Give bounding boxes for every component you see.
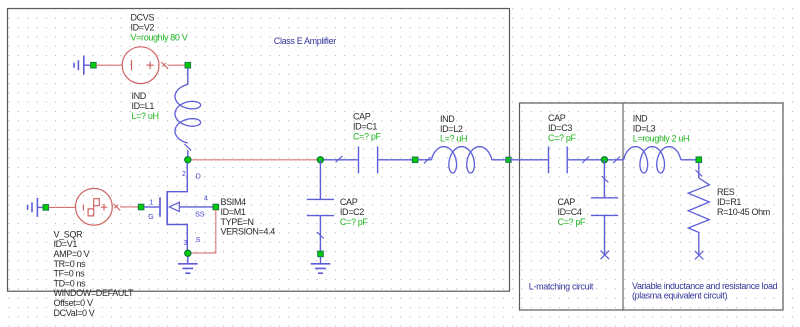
wire L1 to drain node — [187, 150, 189, 160]
svg-text:IND: IND — [633, 114, 648, 124]
pin tick (V_SQR pin 2) — [114, 204, 121, 211]
svg-text:R=10-45 Ohm: R=10-45 Ohm — [717, 207, 770, 217]
junction node (source / ground) — [185, 250, 191, 256]
svg-text:ID=C1: ID=C1 — [353, 122, 377, 132]
svg-text:ID=V2: ID=V2 — [131, 23, 155, 33]
svg-text:IND: IND — [132, 91, 147, 101]
wire node to L1 — [187, 68, 189, 85]
svg-text:TF=0 ns: TF=0 ns — [54, 269, 86, 279]
resistor R1 — [688, 178, 709, 255]
node (bulk SS) — [213, 204, 219, 210]
wire SS to source (red) — [191, 210, 216, 253]
capacitor C3 — [549, 147, 568, 174]
pin tick (C1 pin 1) — [336, 156, 343, 162]
inductor L3 — [624, 147, 681, 173]
svg-text:DCVS: DCVS — [131, 13, 155, 23]
svg-text:L=roughly 2 uH: L=roughly 2 uH — [633, 133, 689, 143]
wire C1 to node — [378, 159, 413, 161]
node (C2 ground) — [318, 251, 324, 257]
open-end X (R1) — [695, 251, 704, 260]
svg-text:ID=L2: ID=L2 — [440, 124, 463, 134]
voltage source V_SQR V1 — [76, 188, 113, 225]
voltage source DCVS V2 — [122, 47, 159, 84]
svg-text:AMP=0 V: AMP=0 V — [54, 249, 90, 259]
svg-text:BSIM4: BSIM4 — [221, 197, 247, 207]
node (L3 / R1) — [696, 157, 702, 163]
svg-text:SS: SS — [195, 212, 205, 219]
wire node down to C2 — [319, 160, 321, 199]
svg-text:3: 3 — [184, 240, 188, 247]
svg-text:CAP: CAP — [558, 197, 576, 207]
svg-text:L=? uH: L=? uH — [132, 111, 159, 121]
svg-text:CAP: CAP — [353, 112, 371, 122]
svg-text:D: D — [196, 173, 201, 180]
svg-text:G: G — [148, 214, 153, 221]
svg-text:V=roughly 80 V: V=roughly 80 V — [131, 32, 188, 42]
svg-text:C=? pF: C=? pF — [558, 217, 587, 227]
divider between L-matching and load sections — [622, 103, 624, 310]
wire C2 to ground node — [319, 216, 321, 252]
wire node to DCVS — [96, 64, 122, 66]
node (DCVS pin 1) — [91, 62, 97, 68]
svg-text:ID=C4: ID=C4 — [558, 207, 582, 217]
svg-text:C=? pF: C=? pF — [340, 217, 369, 227]
svg-text:S: S — [196, 237, 201, 244]
svg-text:WINDOW=DEFAULT: WINDOW=DEFAULT — [54, 288, 135, 298]
node (C1 / L2) — [412, 157, 418, 163]
junction node (L2 output) — [506, 157, 511, 162]
svg-text:1: 1 — [150, 200, 154, 207]
wire node to ground — [320, 257, 322, 264]
svg-text:C=? pF: C=? pF — [548, 133, 577, 143]
svg-text:ID=V1: ID=V1 — [54, 239, 78, 249]
capacitor C4 — [591, 198, 618, 216]
ground (DCVS negative terminal) — [74, 56, 84, 75]
pin tick (C2 pin 2) — [317, 232, 324, 238]
svg-text:Class E Amplifier: Class E Amplifier — [274, 36, 336, 46]
wire ground to node — [37, 206, 43, 208]
svg-text:L-matching circuit: L-matching circuit — [529, 282, 594, 292]
pin tick (R1 pin 1) — [695, 170, 702, 176]
wire L3 to node — [681, 159, 696, 161]
svg-text:Offset=0 V: Offset=0 V — [54, 298, 93, 308]
wire node to L2 — [418, 159, 432, 161]
capacitor C1 — [359, 147, 378, 174]
pin tick (L3 pin 1) — [613, 157, 620, 163]
junction node (C3 / C4 / L3) — [601, 157, 607, 163]
wire V_SQR to gate node — [120, 206, 138, 208]
svg-text:VERSION=4.4: VERSION=4.4 — [221, 227, 276, 237]
svg-text:DCVal=0 V: DCVal=0 V — [54, 308, 95, 318]
wire ground to node — [84, 64, 91, 66]
wire C4 down to open end — [604, 215, 606, 254]
pin tick (DCVS pin 2) — [161, 62, 168, 69]
svg-text:ID=L1: ID=L1 — [132, 101, 155, 111]
wire node down to C4 — [603, 160, 605, 198]
node (gate) — [138, 204, 144, 210]
pin tick (L2 pin 1) — [424, 157, 431, 163]
node (V_SQR pin 1) — [43, 205, 49, 211]
svg-text:IND: IND — [440, 114, 455, 124]
svg-text:ID=C3: ID=C3 — [548, 123, 572, 133]
svg-text:ID=M1: ID=M1 — [221, 207, 246, 217]
ground (M1 source) — [178, 264, 198, 273]
wire L2 node to C3 — [509, 159, 548, 161]
ground (C2) — [311, 264, 331, 273]
junction node drain — [185, 157, 191, 163]
pin tick (L1 pin 2) — [184, 144, 191, 150]
capacitor C2 — [307, 199, 334, 215]
svg-text:ID=L3: ID=L3 — [633, 124, 656, 134]
junction node (C1 / C2) — [317, 157, 323, 163]
svg-text:4: 4 — [204, 195, 208, 202]
pin tick (C3 pin 2) — [582, 157, 589, 163]
wire L2 to box node — [492, 159, 509, 161]
svg-text:TR=0 ns: TR=0 ns — [54, 259, 87, 269]
svg-text:RES: RES — [717, 187, 735, 197]
open-end X (C4) — [601, 251, 610, 260]
wire source node to ground — [187, 257, 189, 264]
wire C3 to node — [567, 159, 604, 161]
transistor M1 (BSIM4 NMOS) — [144, 163, 213, 251]
wire node down to R1 — [698, 163, 700, 179]
subcircuit box: matching + load — [520, 103, 784, 310]
wire DCVS to node — [168, 64, 185, 66]
svg-text:C=? pF: C=? pF — [353, 132, 382, 142]
svg-text:CAP: CAP — [340, 197, 358, 207]
svg-text:ID=R1: ID=R1 — [717, 197, 741, 207]
svg-text:L=? uH: L=? uH — [440, 134, 467, 144]
wire C2 node to C1 — [320, 159, 357, 161]
svg-text:(plasma equivalent circuit): (plasma equivalent circuit) — [632, 290, 727, 300]
node A (top of L1) — [185, 62, 191, 68]
svg-text:CAP: CAP — [548, 113, 566, 123]
wire node to V_SQR — [49, 206, 76, 208]
pin tick (C4 pin 1) — [602, 176, 609, 182]
wire node to L3 — [608, 159, 624, 161]
svg-text:ID=C2: ID=C2 — [340, 207, 364, 217]
svg-text:TYPE=N: TYPE=N — [221, 217, 254, 227]
svg-text:2: 2 — [182, 171, 186, 178]
ground (V_SQR) — [28, 198, 38, 217]
svg-text:V_SQR: V_SQR — [54, 229, 84, 239]
inductor L2 — [432, 147, 492, 173]
svg-text:TD=0 ns: TD=0 ns — [54, 278, 87, 288]
wire drain node to C2 node (red rail) — [188, 159, 321, 161]
subcircuit box: Class E Amplifier — [8, 9, 510, 292]
inductor L1 — [175, 85, 201, 144]
